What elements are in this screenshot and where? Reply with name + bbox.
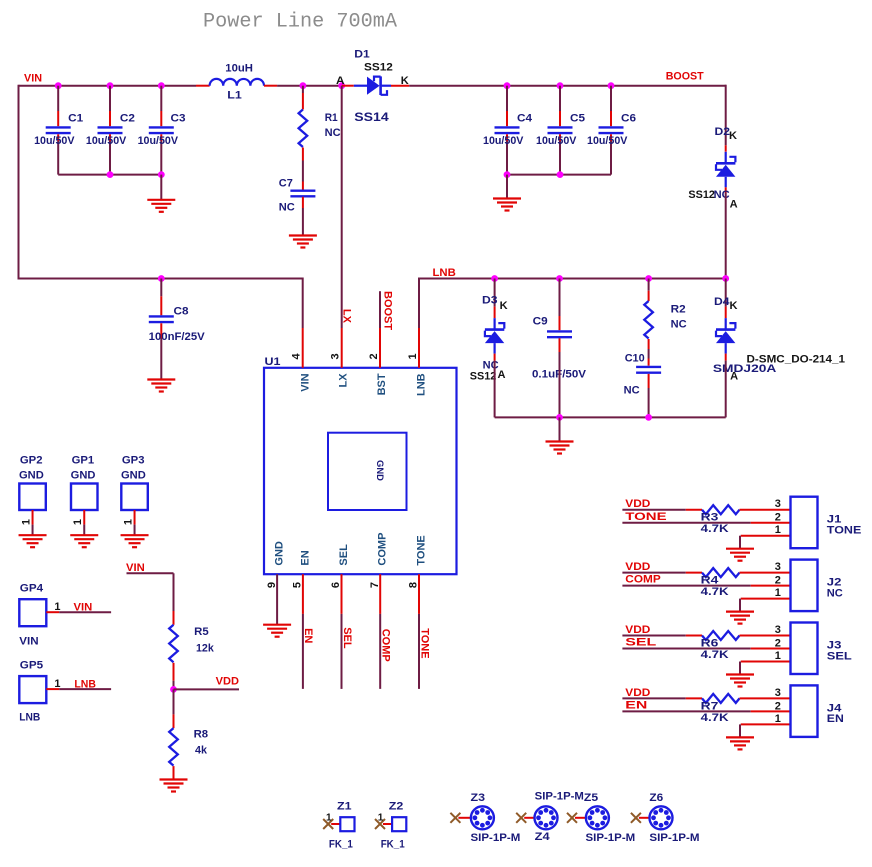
wire VDD J3 [622,635,685,637]
wire VDD J4 [622,697,685,699]
resistor R1 [299,86,341,161]
svg-text:COMP: COMP [377,533,389,566]
svg-text:3: 3 [330,353,342,359]
wire BST stub [379,291,381,328]
svg-text:NC: NC [325,127,341,139]
wire rail to D3 [494,279,496,307]
title [203,10,397,33]
wire right cap bus [507,174,611,176]
pin 9 GND [266,574,278,625]
svg-text:D3: D3 [482,295,498,307]
svg-text:Z1: Z1 [337,801,352,813]
pin 1 J1 [775,524,781,536]
svg-text:R5: R5 [194,626,209,638]
svg-text:4k: 4k [195,745,208,757]
pin 8 TONE [408,574,420,614]
wire pin1 J4 [740,724,791,737]
svg-text:GP3: GP3 [122,455,145,467]
wire VIN to R5 [127,573,174,611]
svg-text:1: 1 [72,519,84,525]
svg-text:4.7K: 4.7K [701,649,729,661]
capacitor C7 [279,178,316,214]
node A [336,75,345,89]
svg-text:VIN: VIN [19,636,38,648]
wire VDD [174,688,240,690]
pin 6 SEL [330,574,342,614]
junction left bus C2 [107,171,114,178]
svg-text:7: 7 [369,582,381,588]
svg-text:TONE: TONE [418,628,430,658]
svg-text:BOOST: BOOST [666,70,704,82]
svg-text:NC: NC [279,202,295,214]
wire C9 to bus [559,352,561,417]
svg-text:12k: 12k [196,643,215,655]
ground C7 [289,236,317,248]
net label VIN divider [126,562,145,574]
wire GP5 [59,688,111,690]
wire pin1 J3 [740,662,791,675]
svg-text:COMP: COMP [625,574,660,586]
svg-text:GND: GND [274,541,286,566]
svg-text:Z2: Z2 [389,801,404,813]
svg-text:1: 1 [326,813,332,824]
pin 5 EN [292,574,304,614]
pin name COMP [377,533,389,566]
wire VDD node to R8 [173,689,175,714]
svg-text:EN: EN [302,628,314,643]
wire rail to D4 [725,279,727,307]
svg-text:10u/50V: 10u/50V [587,135,628,147]
svg-text:LNB: LNB [433,267,456,279]
junction C2 tap [107,82,114,89]
svg-text:GND: GND [121,470,146,482]
connector Z5 [567,792,635,844]
connector GP5 [19,660,60,724]
wire LNB bottom bus [495,416,726,418]
wire R5 to VDD node [173,681,175,690]
ground LNB bus [546,442,574,454]
wire TONE [418,614,420,689]
connector Z2 [375,801,406,851]
junction D3 tap [491,275,498,282]
svg-text:1: 1 [122,519,134,525]
wire rail to R2 [648,279,650,291]
wire R1 to C7 [302,161,304,182]
svg-text:Z3: Z3 [471,792,486,804]
resistor R6 [686,631,791,661]
resistor R5 [169,611,214,681]
svg-text:LX: LX [341,309,353,324]
designator J1 [827,514,842,526]
pin name EN [299,550,311,565]
svg-text:GP5: GP5 [20,660,43,672]
pin 2 BST [368,328,380,368]
svg-text:BOOST: BOOST [381,291,393,330]
svg-text:C8: C8 [174,306,189,318]
connector J2 box [791,560,818,612]
svg-text:2: 2 [775,512,781,524]
connector J4 box [791,685,818,737]
pin name TONE [416,535,428,565]
wire VIN pin drop [302,278,304,329]
wire bus to ground [559,417,561,441]
svg-text:K: K [500,300,508,312]
net label TONE J1 [625,511,666,523]
wire VIN bottom horizontal [18,278,303,280]
ground GP3 [121,535,149,547]
svg-text:TONE: TONE [827,525,862,537]
svg-text:2: 2 [775,638,781,650]
svg-text:C2: C2 [120,113,135,125]
svg-text:K: K [401,75,409,87]
wire LNB rail [419,278,726,280]
ground J4 [726,737,754,749]
svg-text:Z4: Z4 [535,831,551,843]
svg-text:1: 1 [775,650,781,662]
svg-text:SEL: SEL [338,544,350,566]
net label VDD J1 [625,498,650,510]
svg-text:VDD: VDD [625,624,650,636]
svg-text:L1: L1 [227,90,242,102]
pin 7 COMP [369,574,381,614]
net label EN [302,628,314,643]
svg-text:FK_1: FK_1 [381,839,405,851]
svg-text:5: 5 [292,582,304,588]
net label VDD J4 [625,687,650,699]
net label SEL [341,627,353,649]
label SEL J3 [827,650,852,662]
wire LNB pin red [418,327,420,329]
svg-text:SIP-1P-M: SIP-1P-M [586,832,636,844]
junction right bus C4 [504,171,511,178]
wire VIN left drop [18,85,20,279]
inductor L1 [196,63,277,102]
connector GP2 [19,455,46,536]
svg-text:6: 6 [330,582,342,588]
svg-text:U1: U1 [265,356,281,368]
pin name LX [337,373,349,388]
svg-text:VDD: VDD [625,561,650,573]
svg-text:100nF/25V: 100nF/25V [149,331,206,343]
wire LX from node A [341,86,343,328]
svg-text:C9: C9 [533,316,548,328]
junction C1 tap [55,82,62,89]
pin 2 J4 [775,700,781,712]
svg-text:9: 9 [266,582,278,588]
resistor R2 [644,291,686,349]
wire C10 to bus [648,388,650,417]
svg-text:C7: C7 [279,178,293,190]
junction right bus C5 [557,171,564,178]
ground R8 [160,780,188,792]
svg-text:R2: R2 [671,304,686,316]
svg-text:LX: LX [337,373,349,388]
svg-text:TONE: TONE [625,511,666,523]
capacitor C5 [536,86,585,175]
svg-text:2: 2 [775,700,781,712]
junction C6 tap [608,82,615,89]
svg-text:Z5: Z5 [584,792,598,804]
ground GP1 [70,535,98,547]
svg-text:A: A [730,199,738,211]
net label VDD divider [216,676,239,688]
resistor R7 [686,694,791,724]
svg-text:K: K [729,130,737,142]
net label LNB [433,267,456,279]
junction bus C9 [556,414,563,421]
diode D3 [470,295,508,383]
capacitor C2 [86,86,135,175]
svg-text:R8: R8 [194,729,209,741]
junction bus C10 [645,414,652,421]
net label EN J4 [625,700,647,712]
net label LX [341,309,353,324]
svg-text:BST: BST [376,373,388,395]
svg-text:1: 1 [407,353,419,359]
svg-text:1: 1 [775,713,781,725]
svg-text:GP4: GP4 [20,583,44,595]
resistor R8 [169,714,208,779]
svg-text:1: 1 [378,813,384,824]
connector J3 box [791,623,818,675]
svg-text:NC: NC [624,385,640,397]
svg-text:2: 2 [368,353,380,359]
ground J2 [726,612,754,624]
wire LNB pin drop [418,278,420,329]
svg-text:EN: EN [827,713,844,725]
svg-text:SS12: SS12 [470,371,497,383]
pin name GND [274,541,286,566]
svg-text:10u/50V: 10u/50V [483,135,524,147]
svg-text:SEL: SEL [827,650,852,662]
svg-text:K: K [730,300,738,312]
junction C4 tap [504,82,511,89]
wire COMP [379,614,381,689]
svg-text:VIN: VIN [126,562,145,574]
pin 1 J3 [775,650,781,662]
wire BOOST drop [725,85,727,146]
junction VDD [170,686,177,693]
junction D2-D4 [722,275,729,282]
svg-text:C5: C5 [570,113,585,125]
junction C8 tap [158,275,165,282]
svg-text:GP2: GP2 [20,455,43,467]
junction left bus C3 [158,171,165,178]
svg-text:SIP-1P-M: SIP-1P-M [535,791,584,803]
ground C8 [147,380,175,392]
svg-text:SS12: SS12 [364,62,393,74]
connector J1 box [791,497,818,549]
wire D2 to LNB rail [725,193,727,279]
designator J2 [827,577,842,589]
svg-text:D1: D1 [354,49,370,61]
svg-text:3: 3 [775,498,781,510]
capacitor C8 [149,279,206,344]
ground U1 pin 9 [263,625,291,637]
connector GP4 [19,583,60,648]
svg-text:VIN: VIN [24,73,42,85]
svg-text:LNB: LNB [19,712,40,724]
label TONE J1 [827,525,862,537]
connector Z3 [450,792,520,844]
junction R1 tap [300,82,307,89]
svg-text:VDD: VDD [216,676,239,688]
pin name SEL [338,544,350,566]
svg-text:3: 3 [775,561,781,573]
net label TONE [418,628,430,658]
capacitor C1 [34,86,83,175]
net label SEL J3 [625,637,656,649]
pin name VIN [299,373,311,391]
svg-text:10u/50V: 10u/50V [536,135,577,147]
wire VDD J1 [622,509,685,511]
wire D3 to bus [494,361,496,418]
pin 3 LX [330,328,342,368]
connector Z1 [323,801,354,851]
pin 2 J2 [775,575,781,587]
wire VDD J2 [622,572,685,574]
svg-text:Z6: Z6 [649,792,663,804]
svg-text:SS14: SS14 [354,110,389,124]
svg-text:4.7K: 4.7K [701,712,729,724]
svg-text:R1: R1 [325,112,338,124]
svg-text:VDD: VDD [625,498,650,510]
svg-text:SS12: SS12 [688,189,715,201]
junction R2 tap [645,275,652,282]
pin 3 J4 [775,687,781,699]
wire right bus to ground [506,175,508,199]
ground GP2 [19,535,47,547]
wire left bus to ground [160,175,162,200]
svg-text:LNB: LNB [415,373,427,396]
svg-text:FK_1: FK_1 [329,839,353,851]
wire left cap bus [58,174,161,176]
svg-text:TONE: TONE [416,535,428,565]
U1 thermal pad GND box [328,433,407,510]
svg-text:SIP-1P-M: SIP-1P-M [649,832,699,844]
pin 4 VIN [291,328,303,368]
svg-text:GND: GND [19,470,44,482]
wire TONE J1 [622,522,790,524]
wire pin1 J2 [740,599,791,612]
junction C5 tap [557,82,564,89]
svg-text:10u/50V: 10u/50V [138,135,179,147]
op-amp U1 box [264,356,457,574]
svg-text:GP1: GP1 [72,455,95,467]
wire R2 to C10 [648,349,650,359]
svg-text:4.7K: 4.7K [701,586,729,598]
net label VIN [24,73,42,85]
svg-text:VIN: VIN [299,373,311,391]
connector Z4 [516,791,584,843]
wire rail to C9 [559,279,561,317]
net label VDD J2 [625,561,650,573]
pin 1 LNB [407,328,419,368]
resistor R4 [686,568,791,598]
net label BOOST [666,70,704,82]
connector GP1 [71,455,98,536]
pin 1 J2 [775,587,781,599]
net label COMP [380,629,392,662]
wire C7 to ground [302,208,304,236]
wire COMP J2 [622,585,790,587]
net label VIN at GP4 [74,602,93,614]
svg-text:C3: C3 [171,113,186,125]
svg-text:Power Line 700mA: Power Line 700mA [203,10,397,33]
pin 2 J1 [775,512,781,524]
svg-text:4.7K: 4.7K [701,523,729,535]
connector GP3 [121,455,148,536]
wire pin1 J1 [740,536,791,549]
svg-text:C4: C4 [517,113,533,125]
wire C8 to ground [160,338,162,380]
svg-text:C6: C6 [621,113,636,125]
junction C9 tap [556,275,563,282]
junction C3 tap [158,82,165,89]
ground J1 [726,549,754,561]
ground J3 [726,675,754,687]
net label LNB at GP5 [74,679,96,691]
pin 3 J1 [775,498,781,510]
svg-text:EN: EN [625,700,647,712]
pin name LNB [415,373,427,396]
svg-text:3: 3 [775,624,781,636]
svg-text:1: 1 [775,587,781,599]
svg-text:COMP: COMP [380,629,392,662]
svg-text:EN: EN [299,550,311,565]
svg-text:A: A [498,369,506,381]
svg-text:GND: GND [375,460,385,482]
capacitor C3 [138,86,186,175]
svg-text:2: 2 [775,575,781,587]
svg-text:VDD: VDD [625,687,650,699]
capacitor C9 [532,316,587,381]
wire VIN rail left [19,85,197,87]
capacitor C10 [624,353,662,397]
svg-text:1: 1 [20,519,32,525]
diode D2 [688,126,737,211]
svg-text:SEL: SEL [341,627,353,649]
svg-text:D-SMC_DO-214_1: D-SMC_DO-214_1 [747,354,846,366]
designator J4 [827,702,843,714]
ground right caps [493,199,521,211]
resistor R3 [686,505,791,535]
pin 3 J3 [775,624,781,636]
svg-text:8: 8 [408,582,420,588]
net label VDD J3 [625,624,650,636]
svg-text:C1: C1 [68,113,83,125]
svg-text:A: A [730,371,738,383]
svg-text:SIP-1P-M: SIP-1P-M [471,832,521,844]
label NC J2 [827,587,843,599]
wire EN J4 [622,710,790,712]
pin 3 J2 [775,561,781,573]
svg-text:10uH: 10uH [225,63,253,75]
pin 2 J3 [775,638,781,650]
svg-text:C10: C10 [625,353,645,365]
svg-text:D2: D2 [715,126,731,138]
net label BOOST vertical [381,291,393,330]
capacitor C6 [587,86,636,175]
designator J3 [827,640,842,652]
svg-text:GND: GND [71,470,96,482]
diode D1 [342,49,410,125]
ground left caps [147,200,175,212]
net label COMP J2 [625,574,660,586]
wire rail D1 to corner [409,85,726,87]
connector Z6 [631,792,700,844]
pin 1 J4 [775,713,781,725]
